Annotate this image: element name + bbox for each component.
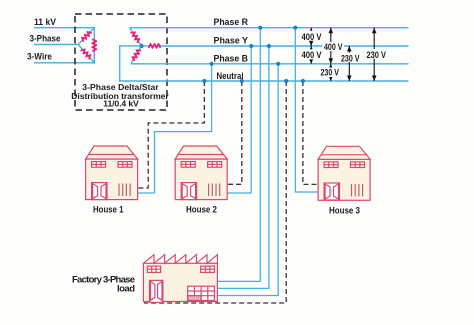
node tap N house2 xyxy=(240,79,244,83)
node tap B factory xyxy=(276,62,280,66)
svg-text:400 V: 400 V xyxy=(302,50,322,60)
wire feeder middle xyxy=(34,44,78,46)
svg-text:load: load xyxy=(117,284,135,295)
wire Phase Y bus xyxy=(162,45,409,47)
node tap B house1 xyxy=(210,62,214,66)
wire factory R drop xyxy=(217,28,260,282)
voltage arrow Y-N 230V xyxy=(340,46,362,81)
wire house2 phase drop xyxy=(227,46,252,193)
transformer dashed box xyxy=(75,14,167,110)
label Factory 3-Phase load xyxy=(72,274,135,294)
node tap N factory xyxy=(284,79,288,83)
node tap Y factory xyxy=(267,44,271,48)
svg-text:Phase R: Phase R xyxy=(214,17,249,28)
wire Phase R bus xyxy=(130,27,409,29)
svg-text:3-Wire: 3-Wire xyxy=(27,51,52,62)
wire factory Y drop xyxy=(217,46,269,288)
wire feeder bottom xyxy=(34,62,94,64)
node tap R house3 xyxy=(293,26,297,30)
voltage arrow R-B 400V xyxy=(323,28,345,64)
svg-text:3-Phase: 3-Phase xyxy=(30,33,61,44)
voltage arrow B-N 230V xyxy=(320,64,342,81)
transformer star winding xyxy=(130,28,162,64)
svg-text:11/0.4 kV: 11/0.4 kV xyxy=(103,99,139,109)
house 2 xyxy=(175,146,227,200)
wire feeder top xyxy=(34,27,94,29)
house 1 xyxy=(86,146,138,200)
node tap Y house2 xyxy=(249,44,253,48)
svg-text:House 1: House 1 xyxy=(93,204,124,215)
transformer delta winding xyxy=(78,28,96,63)
svg-text:400 V: 400 V xyxy=(324,42,343,52)
svg-text:House 3: House 3 xyxy=(329,206,360,217)
wire Phase B bus xyxy=(131,63,409,65)
factory xyxy=(143,255,217,303)
transformer caption xyxy=(71,82,169,109)
node tap N house3 xyxy=(301,79,305,83)
svg-text:230 V: 230 V xyxy=(367,50,387,60)
svg-text:230 V: 230 V xyxy=(321,67,340,77)
voltage arrow Y-B 400V xyxy=(301,46,323,64)
wire house3 phase drop xyxy=(295,28,318,192)
voltage arrow R-Y 400V xyxy=(301,28,323,46)
wire neutral from star center xyxy=(120,46,409,81)
svg-text:Phase B: Phase B xyxy=(214,53,249,64)
wire factory B drop xyxy=(217,64,278,296)
svg-text:Phase Y: Phase Y xyxy=(214,36,249,47)
svg-text:11 kV: 11 kV xyxy=(34,17,57,28)
wire house1 phase drop xyxy=(138,64,212,193)
svg-text:House 2: House 2 xyxy=(186,204,217,215)
wire house1 neutral drop (dashed) xyxy=(138,81,205,188)
house 3 xyxy=(318,146,370,200)
node tap N house1 xyxy=(202,79,206,83)
svg-text:400 V: 400 V xyxy=(302,32,322,42)
wire factory neutral drop (dashed) xyxy=(144,81,286,303)
node tap R factory xyxy=(258,26,262,30)
svg-text:230 V: 230 V xyxy=(341,53,360,63)
wire house3 neutral drop (dashed) xyxy=(303,81,318,184)
wire house2 neutral drop (dashed) xyxy=(227,81,242,184)
voltage arrow R-N 230V xyxy=(366,28,389,81)
svg-text:Neutral: Neutral xyxy=(217,71,244,82)
